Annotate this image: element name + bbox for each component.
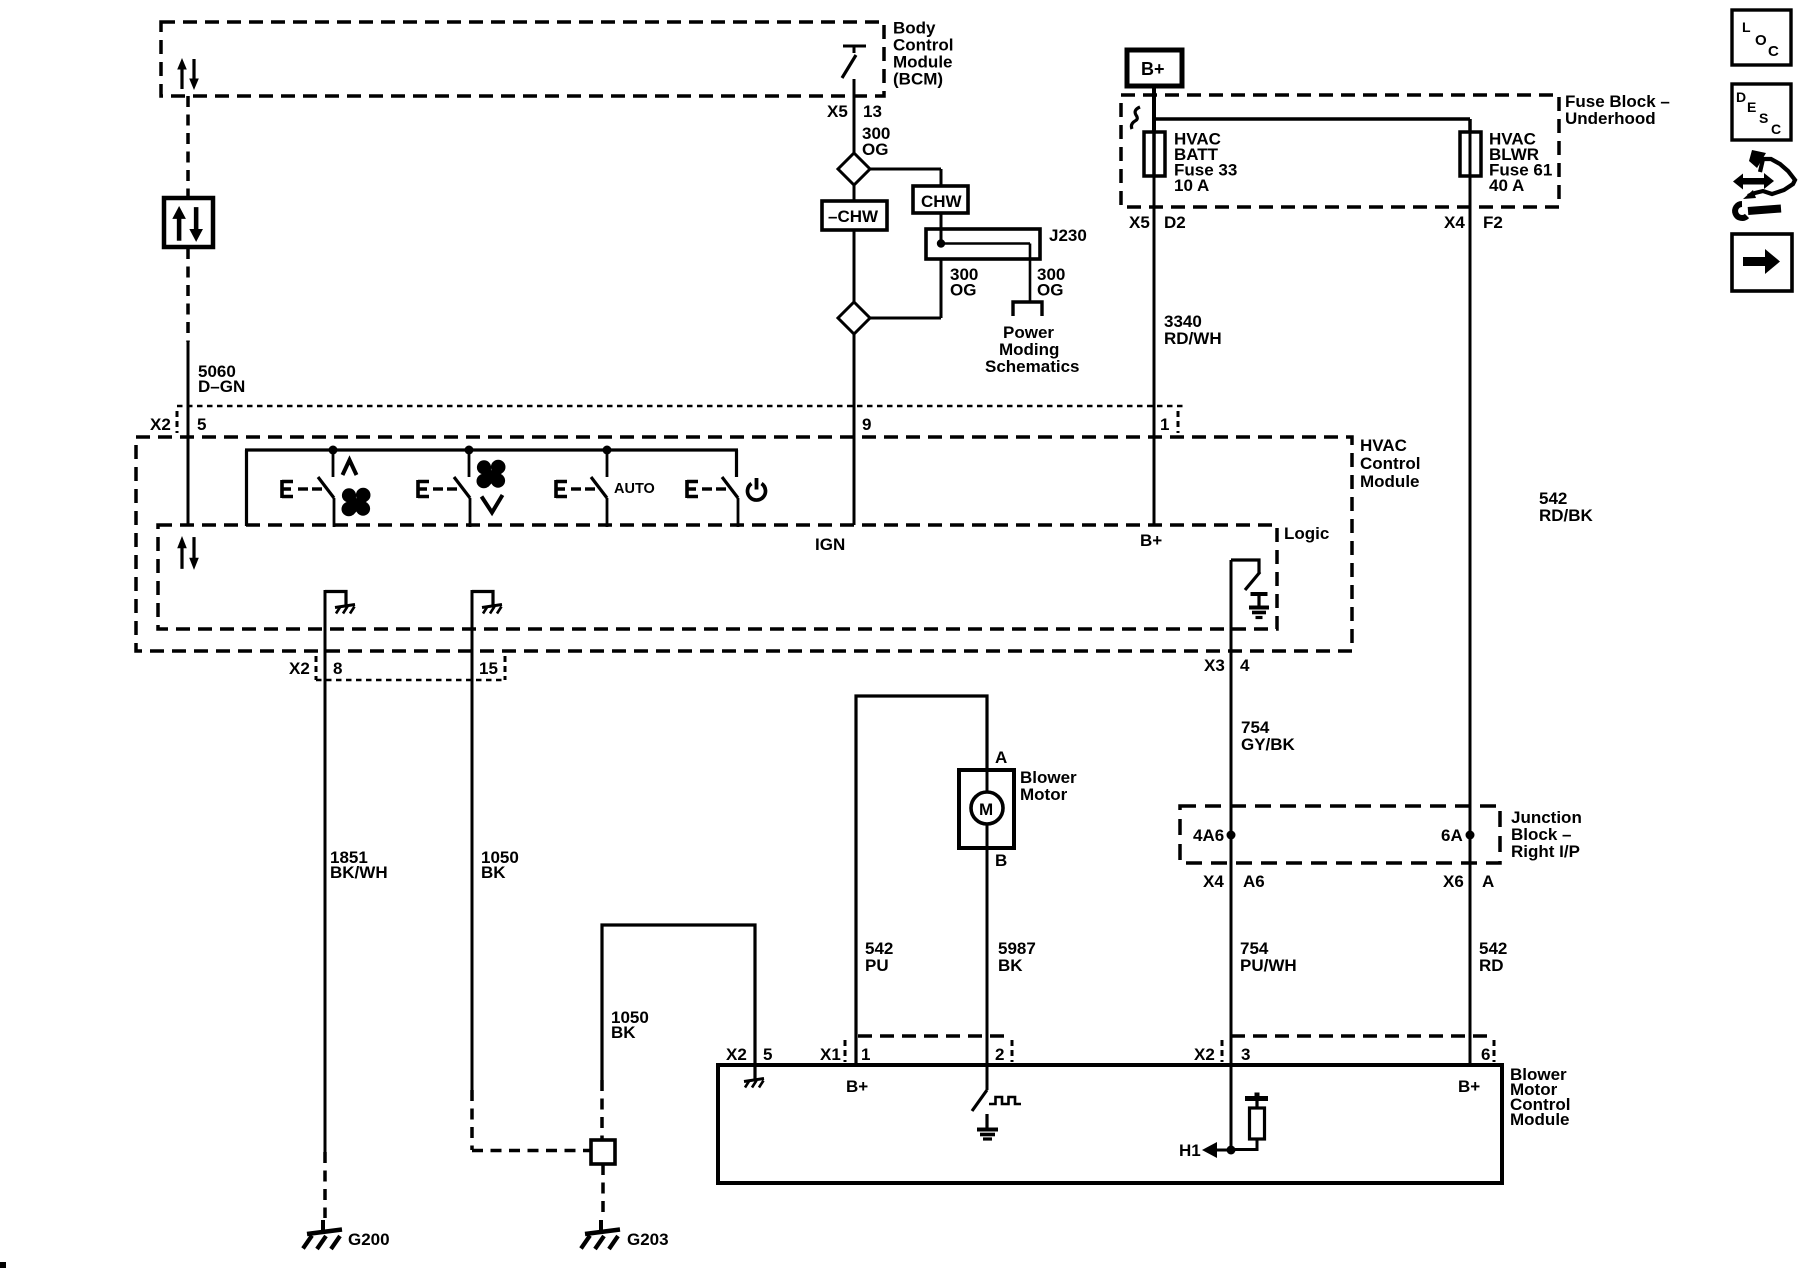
svg-text:Right I/P: Right I/P — [1511, 842, 1580, 861]
svg-text:IGN: IGN — [815, 535, 845, 554]
svg-text:5: 5 — [197, 415, 206, 434]
svg-text:8: 8 — [333, 659, 342, 678]
svg-text:X4: X4 — [1203, 872, 1224, 891]
svg-text:B+: B+ — [846, 1077, 868, 1096]
svg-text:X2: X2 — [289, 659, 310, 678]
svg-text:Module: Module — [1510, 1110, 1570, 1129]
svg-text:GY/BK: GY/BK — [1241, 735, 1296, 754]
svg-text:M: M — [979, 800, 993, 819]
svg-text:BK: BK — [998, 956, 1023, 975]
svg-text:RD: RD — [1479, 956, 1504, 975]
svg-text:X2: X2 — [1194, 1045, 1215, 1064]
svg-text:CHW: CHW — [921, 192, 963, 211]
svg-text:Module: Module — [1360, 472, 1420, 491]
svg-text:X3: X3 — [1204, 656, 1225, 675]
svg-text:6: 6 — [1481, 1045, 1490, 1064]
svg-text:RD/WH: RD/WH — [1164, 329, 1222, 348]
svg-text:9: 9 — [862, 415, 871, 434]
svg-text:B: B — [995, 851, 1007, 870]
svg-text:6A: 6A — [1441, 826, 1463, 845]
svg-text:Control: Control — [1360, 454, 1420, 473]
svg-text:BK: BK — [611, 1023, 636, 1042]
svg-text:D–GN: D–GN — [198, 377, 245, 396]
svg-text:F2: F2 — [1483, 213, 1503, 232]
svg-text:H1: H1 — [1179, 1141, 1201, 1160]
svg-text:10 A: 10 A — [1174, 176, 1209, 195]
svg-text:4A6: 4A6 — [1193, 826, 1224, 845]
svg-text:15: 15 — [479, 659, 498, 678]
svg-text:AUTO: AUTO — [614, 481, 655, 497]
svg-text:L: L — [1742, 19, 1751, 35]
svg-text:2: 2 — [995, 1045, 1004, 1064]
svg-text:OG: OG — [950, 281, 976, 300]
svg-text:OG: OG — [1037, 281, 1063, 300]
svg-text:S: S — [1759, 110, 1768, 126]
svg-text:X5: X5 — [1129, 213, 1150, 232]
svg-text:B+: B+ — [1458, 1077, 1480, 1096]
svg-text:(BCM): (BCM) — [893, 70, 943, 89]
svg-text:PU: PU — [865, 956, 889, 975]
svg-text:D2: D2 — [1164, 213, 1186, 232]
svg-text:5: 5 — [763, 1045, 772, 1064]
svg-text:Motor: Motor — [1020, 785, 1068, 804]
svg-text:A: A — [1482, 872, 1494, 891]
svg-text:3: 3 — [1241, 1045, 1250, 1064]
svg-text:A: A — [995, 748, 1007, 767]
svg-text:RD/BK: RD/BK — [1539, 506, 1594, 525]
svg-text:C: C — [1771, 121, 1781, 137]
svg-text:40 A: 40 A — [1489, 176, 1524, 195]
svg-text:PU/WH: PU/WH — [1240, 956, 1297, 975]
svg-text:HVAC: HVAC — [1360, 436, 1407, 455]
svg-text:BK: BK — [481, 863, 506, 882]
svg-text:A6: A6 — [1243, 872, 1265, 891]
svg-text:C: C — [1768, 43, 1779, 60]
svg-text:X2: X2 — [726, 1045, 747, 1064]
svg-text:OG: OG — [862, 140, 888, 159]
svg-text:G203: G203 — [627, 1230, 669, 1249]
svg-text:1: 1 — [861, 1045, 870, 1064]
svg-text:BK/WH: BK/WH — [330, 863, 388, 882]
svg-text:E: E — [1747, 99, 1756, 115]
svg-text:O: O — [1755, 32, 1767, 49]
svg-text:13: 13 — [863, 102, 882, 121]
svg-text:D: D — [1736, 89, 1746, 105]
svg-text:Logic: Logic — [1284, 524, 1329, 543]
svg-text:4: 4 — [1240, 656, 1250, 675]
svg-text:X5: X5 — [827, 102, 848, 121]
svg-text:B+: B+ — [1141, 59, 1165, 79]
svg-text:X2: X2 — [150, 415, 171, 434]
svg-text:B+: B+ — [1140, 531, 1162, 550]
svg-text:X1: X1 — [820, 1045, 841, 1064]
svg-text:J230: J230 — [1049, 226, 1087, 245]
svg-text:X6: X6 — [1443, 872, 1464, 891]
svg-text:Underhood: Underhood — [1565, 109, 1656, 128]
svg-text:–CHW: –CHW — [828, 207, 879, 226]
svg-text:Schematics: Schematics — [985, 357, 1080, 376]
svg-text:1: 1 — [1160, 415, 1169, 434]
svg-text:G200: G200 — [348, 1230, 390, 1249]
svg-text:X4: X4 — [1444, 213, 1465, 232]
